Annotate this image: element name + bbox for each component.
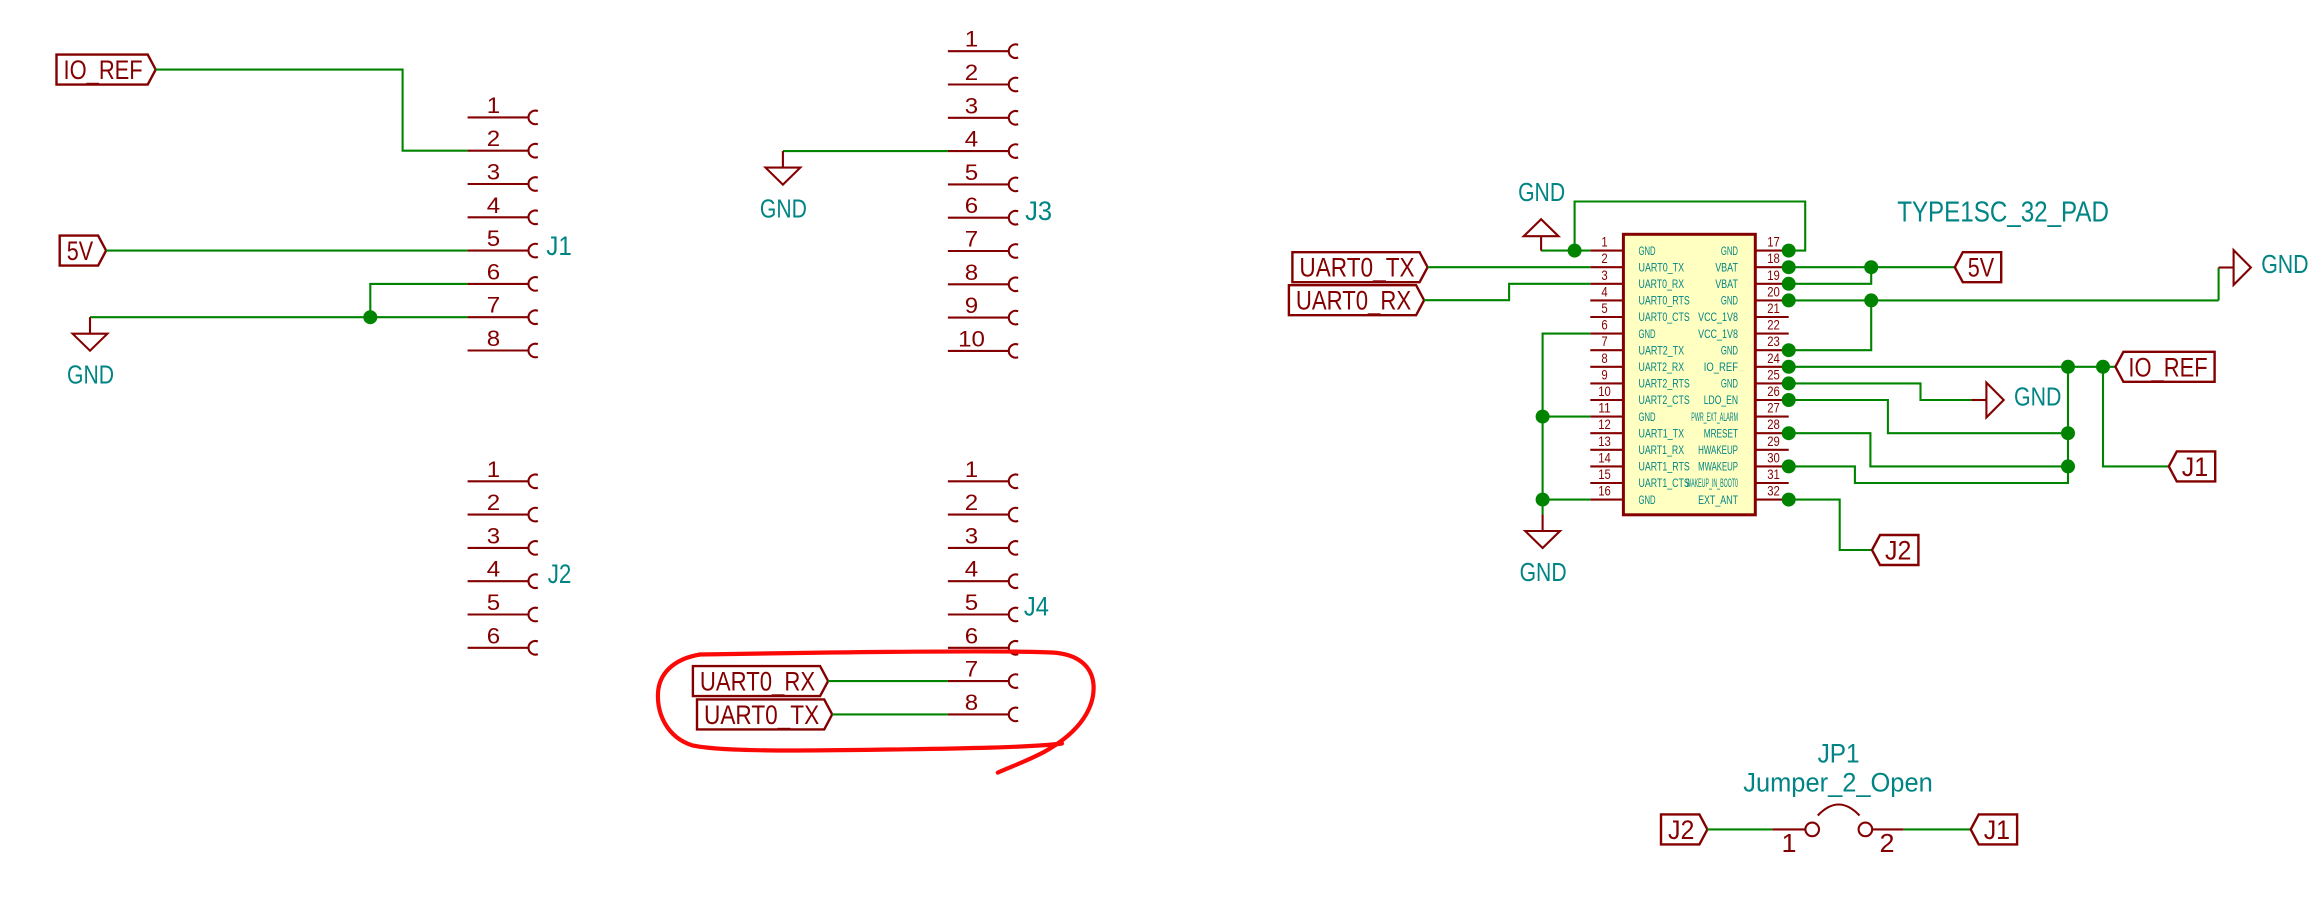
svg-text:4: 4 [965,127,978,152]
svg-text:7: 7 [487,293,500,318]
svg-text:UART2_RTS: UART2_RTS [1639,378,1690,391]
svg-text:HWAKEUP: HWAKEUP [1698,444,1738,457]
svg-text:UART1_TX: UART1_TX [1639,427,1685,440]
svg-text:5V: 5V [67,236,94,266]
svg-text:2: 2 [487,490,500,515]
svg-text:20: 20 [1767,283,1780,299]
svg-text:9: 9 [1601,366,1607,382]
svg-text:Jumper_2_Open: Jumper_2_Open [1743,768,1933,798]
svg-text:6: 6 [487,623,500,648]
svg-text:UART1_RTS: UART1_RTS [1639,461,1690,474]
svg-text:1: 1 [965,27,978,52]
svg-text:10: 10 [1598,383,1611,399]
svg-text:UART1_RX: UART1_RX [1639,444,1685,457]
svg-text:25: 25 [1767,366,1780,382]
svg-text:23: 23 [1767,333,1780,349]
svg-text:UART0_RX: UART0_RX [1639,278,1685,291]
svg-text:J2: J2 [548,559,572,589]
svg-text:27: 27 [1767,400,1780,416]
svg-text:1: 1 [487,93,500,118]
svg-text:10: 10 [958,326,985,351]
svg-text:2: 2 [1601,250,1607,266]
svg-text:16: 16 [1598,483,1611,499]
svg-text:24: 24 [1767,350,1780,366]
svg-text:GND: GND [760,193,807,223]
svg-text:15: 15 [1598,466,1611,482]
svg-text:1: 1 [487,457,500,482]
svg-text:VCC_1V8: VCC_1V8 [1698,311,1738,324]
svg-text:28: 28 [1767,416,1780,432]
svg-text:8: 8 [965,690,978,715]
svg-text:UART0_RTS: UART0_RTS [1639,295,1690,308]
svg-text:4: 4 [487,193,500,218]
svg-text:4: 4 [965,557,978,582]
svg-text:13: 13 [1598,433,1611,449]
svg-text:UART0_CTS: UART0_CTS [1639,311,1690,324]
svg-text:TYPE1SC_32_PAD: TYPE1SC_32_PAD [1897,196,2109,228]
svg-text:GND: GND [2261,249,2308,279]
svg-text:14: 14 [1598,449,1611,465]
svg-text:J1: J1 [2182,452,2208,482]
svg-text:IO_REF: IO_REF [1704,361,1738,374]
svg-text:J1: J1 [1984,815,2010,845]
svg-text:UART0_RX: UART0_RX [700,667,815,697]
svg-text:3: 3 [1601,267,1607,283]
svg-text:12: 12 [1598,416,1611,432]
svg-text:2: 2 [1880,830,1895,858]
svg-text:GND: GND [1721,378,1738,391]
svg-text:GND: GND [2014,382,2061,412]
svg-text:11: 11 [1598,400,1611,416]
svg-text:WAKEUP_IN_BOOT0: WAKEUP_IN_BOOT0 [1686,477,1738,490]
svg-text:5: 5 [487,590,500,615]
svg-text:1: 1 [1782,830,1797,858]
svg-text:UART2_TX: UART2_TX [1639,344,1685,357]
svg-text:UART1_CTS: UART1_CTS [1639,477,1690,490]
svg-text:GND: GND [1520,557,1567,587]
svg-text:7: 7 [1601,333,1607,349]
svg-text:7: 7 [965,227,978,252]
svg-text:22: 22 [1767,317,1780,333]
svg-text:3: 3 [487,160,500,185]
svg-text:UART2_CTS: UART2_CTS [1639,394,1690,407]
svg-text:3: 3 [965,523,978,548]
svg-text:17: 17 [1767,234,1780,250]
svg-text:GND: GND [1518,177,1565,207]
svg-text:GND: GND [1721,295,1738,308]
svg-text:6: 6 [965,193,978,218]
svg-text:30: 30 [1767,449,1780,465]
svg-text:UART0_TX: UART0_TX [1299,253,1414,283]
svg-text:18: 18 [1767,250,1780,266]
svg-text:MRESET: MRESET [1704,427,1738,440]
svg-text:J3: J3 [1025,196,1052,226]
svg-text:26: 26 [1767,383,1780,399]
svg-text:GND: GND [1639,245,1656,258]
svg-text:21: 21 [1767,300,1780,316]
svg-text:5: 5 [1601,300,1607,316]
svg-text:5: 5 [487,226,500,251]
svg-text:8: 8 [1601,350,1607,366]
svg-text:6: 6 [965,623,978,648]
svg-text:19: 19 [1767,267,1780,283]
svg-text:GND: GND [1639,411,1656,424]
svg-text:J1: J1 [546,231,572,261]
svg-text:PWR_EXT_ALARM: PWR_EXT_ALARM [1691,411,1738,424]
svg-text:IO_REF: IO_REF [2128,352,2207,382]
svg-text:UART2_RX: UART2_RX [1639,361,1685,374]
svg-text:4: 4 [487,557,500,582]
svg-text:J2: J2 [1885,536,1911,566]
svg-text:GND: GND [1721,245,1738,258]
svg-text:JP1: JP1 [1818,738,1860,769]
svg-text:5: 5 [965,590,978,615]
svg-text:1: 1 [965,457,978,482]
svg-text:6: 6 [1601,317,1607,333]
svg-text:2: 2 [487,126,500,151]
svg-text:7: 7 [965,657,978,682]
svg-text:UART0_TX: UART0_TX [704,700,819,730]
svg-text:J2: J2 [1668,815,1694,845]
svg-text:UART0_RX: UART0_RX [1296,286,1411,316]
svg-text:GND: GND [67,360,114,390]
svg-text:3: 3 [487,523,500,548]
svg-text:VBAT: VBAT [1715,261,1738,274]
svg-text:MWAKEUP: MWAKEUP [1698,461,1738,474]
svg-text:8: 8 [965,260,978,285]
svg-text:UART0_TX: UART0_TX [1639,261,1685,274]
svg-text:IO_REF: IO_REF [64,55,143,85]
svg-text:6: 6 [487,259,500,284]
svg-text:32: 32 [1767,483,1780,499]
svg-text:2: 2 [965,60,978,85]
svg-text:GND: GND [1721,344,1738,357]
svg-text:2: 2 [965,490,978,515]
svg-text:3: 3 [965,93,978,118]
svg-text:J4: J4 [1024,592,1049,622]
svg-text:GND: GND [1639,494,1656,507]
svg-text:29: 29 [1767,433,1780,449]
svg-text:VBAT: VBAT [1715,278,1738,291]
svg-text:5: 5 [965,160,978,185]
svg-text:LDO_EN: LDO_EN [1704,394,1738,407]
svg-text:5V: 5V [1968,253,1995,283]
svg-text:VCC_1V8: VCC_1V8 [1698,328,1738,341]
svg-text:GND: GND [1639,328,1656,341]
svg-text:1: 1 [1601,234,1607,250]
svg-text:4: 4 [1601,283,1607,299]
svg-text:EXT_ANT: EXT_ANT [1698,494,1738,507]
svg-text:8: 8 [487,326,500,351]
svg-text:31: 31 [1767,466,1780,482]
svg-text:9: 9 [965,293,978,318]
